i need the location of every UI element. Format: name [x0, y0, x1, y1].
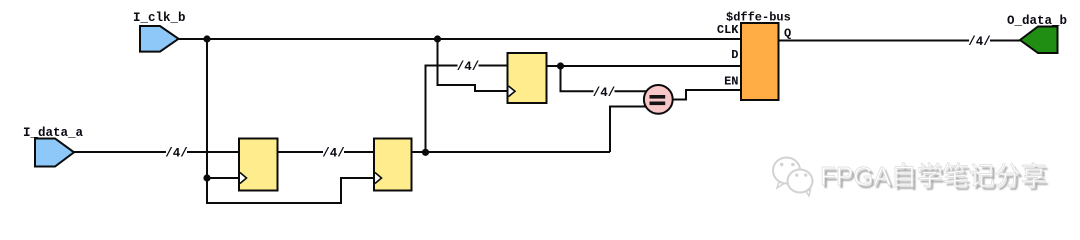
svg-text:/4/: /4/: [165, 147, 188, 161]
svg-text:FPGA自学笔记分享: FPGA自学笔记分享: [820, 161, 1047, 191]
svg-text:D: D: [731, 48, 738, 62]
svg-text:I_data_a: I_data_a: [23, 126, 84, 140]
svg-text:EN: EN: [724, 75, 738, 89]
svg-text:Q: Q: [784, 27, 791, 41]
svg-text:/4/: /4/: [968, 35, 991, 49]
svg-text:/4/: /4/: [322, 147, 345, 161]
svg-text:O_data_b: O_data_b: [1007, 14, 1067, 28]
svg-text:I_clk_b: I_clk_b: [133, 11, 186, 25]
svg-text:/4/: /4/: [593, 86, 616, 100]
svg-text:CLK: CLK: [717, 23, 739, 37]
svg-text:/4/: /4/: [457, 60, 480, 74]
